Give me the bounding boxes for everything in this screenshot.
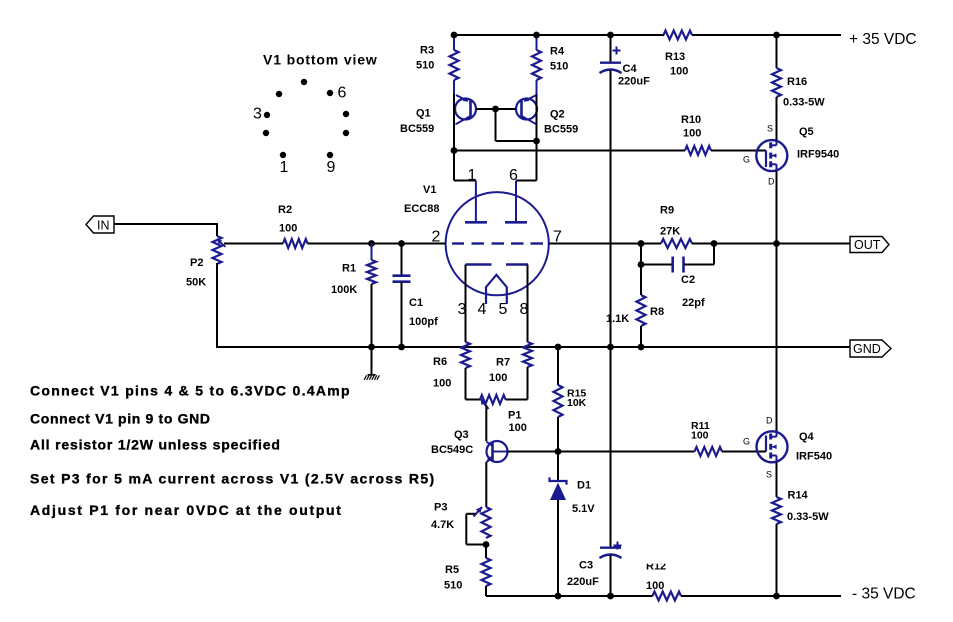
- port IN: [86, 216, 114, 233]
- resistor R11: [691, 420, 722, 456]
- potentiometer P1: [466, 395, 528, 434]
- tube V1 ECC88 envelope: [404, 184, 549, 295]
- resistor R13: [664, 31, 693, 78]
- svg-text:100pf: 100pf: [409, 316, 438, 328]
- svg-text:Q5: Q5: [799, 126, 814, 138]
- svg-text:9: 9: [327, 159, 336, 176]
- svg-text:V1 bottom view: V1 bottom view: [263, 52, 378, 68]
- svg-text:R10: R10: [681, 114, 701, 126]
- wire R2 to V1 pin2: [308, 243, 447, 245]
- wire P1 wiper to Q3: [485, 405, 487, 441]
- MOSFET Q4: [743, 416, 832, 480]
- svg-text:100K: 100K: [331, 284, 357, 296]
- wire V1 pin6 jog: [516, 181, 537, 223]
- svg-text:- 35 VDC: - 35 VDC: [852, 586, 916, 603]
- V1 heater: [486, 275, 507, 304]
- wire Q1 side: [453, 94, 455, 151]
- capacitor C4: [600, 35, 651, 347]
- capacitor C1: [393, 244, 439, 348]
- label V1 pin 2: [432, 228, 441, 245]
- node top rail junctions: [451, 32, 780, 39]
- svg-text:R7: R7: [496, 357, 510, 369]
- svg-text:6: 6: [509, 167, 518, 184]
- resistor R15: [554, 347, 587, 452]
- svg-text:100: 100: [683, 128, 701, 140]
- svg-text:P3: P3: [434, 502, 447, 514]
- wire out row to port: [714, 243, 850, 245]
- node gnd row junctions: [555, 344, 645, 351]
- svg-text:IRF9540: IRF9540: [797, 148, 839, 160]
- wire mirror output row: [454, 150, 685, 152]
- svg-text:Q2: Q2: [550, 109, 565, 121]
- resistor R1: [331, 244, 376, 348]
- node out row right: [711, 240, 718, 247]
- transistor Q2: [496, 95, 579, 136]
- wire Q2 side: [536, 94, 538, 181]
- wire output column: [776, 244, 778, 432]
- svg-text:+ 35 VDC: + 35 VDC: [849, 31, 917, 48]
- svg-text:R1: R1: [342, 263, 356, 275]
- capacitor C2: [641, 244, 714, 310]
- resistor R5: [444, 545, 491, 597]
- svg-text:C2: C2: [681, 274, 695, 286]
- svg-text:0.33-5W: 0.33-5W: [787, 511, 829, 523]
- wire R11 to Q4 gate: [722, 451, 766, 453]
- label V1 pin 5: [499, 301, 508, 318]
- svg-text:P2: P2: [190, 257, 203, 269]
- svg-text:6: 6: [338, 85, 347, 102]
- svg-text:BC549C: BC549C: [431, 444, 473, 456]
- svg-text:220uF: 220uF: [567, 576, 599, 588]
- svg-text:100: 100: [646, 580, 664, 592]
- svg-text:R16: R16: [787, 76, 807, 88]
- wire Q5 drain to out: [776, 171, 778, 244]
- svg-text:220uF: 220uF: [618, 76, 650, 88]
- node bottom rail junctions: [555, 593, 780, 600]
- wire V1 pin1 jog: [454, 151, 476, 223]
- wire Q3 emitter to P3: [485, 462, 487, 507]
- svg-text:BC559: BC559: [400, 123, 434, 135]
- svg-text:1: 1: [468, 167, 477, 184]
- svg-text:100: 100: [670, 66, 688, 78]
- svg-text:Connect V1 pins 4 & 5 to 6.3V: Connect V1 pins 4 & 5 to 6.3VDC 0.4Amp: [30, 383, 351, 399]
- MOSFET Q5: [743, 124, 839, 187]
- svg-text:ECC88: ECC88: [404, 203, 439, 215]
- svg-text:C3: C3: [579, 560, 593, 572]
- svg-text:1.1K: 1.1K: [606, 313, 629, 325]
- svg-text:D: D: [768, 177, 775, 187]
- ground: [364, 347, 379, 380]
- svg-text:D1: D1: [577, 480, 591, 492]
- label V1 pin 8: [520, 301, 529, 318]
- resistor R3: [416, 35, 459, 95]
- label V1 pin 1: [468, 167, 477, 184]
- svg-text:G: G: [743, 437, 750, 447]
- resistor R7: [489, 265, 532, 400]
- svg-text:D: D: [766, 416, 773, 426]
- svg-text:Q1: Q1: [416, 108, 431, 120]
- svg-text:4.7K: 4.7K: [431, 519, 454, 531]
- V1 socket bottom view diagram: [253, 52, 378, 176]
- svg-text:G: G: [743, 155, 750, 165]
- svg-text:510: 510: [550, 61, 568, 73]
- resistor R2: [278, 204, 308, 248]
- svg-text:100: 100: [279, 223, 297, 235]
- V1 cathode plates: [466, 263, 529, 265]
- wire base tie drop: [496, 109, 537, 141]
- V1 grid (dashed): [452, 242, 543, 244]
- svg-text:R5: R5: [445, 564, 459, 576]
- svg-text:27K: 27K: [660, 226, 680, 238]
- wire P2 wiper row: [224, 243, 283, 245]
- node out row left: [638, 240, 645, 247]
- svg-text:C4: C4: [623, 63, 638, 75]
- resistor R10: [681, 114, 711, 155]
- svg-text:R13: R13: [665, 51, 685, 63]
- svg-text:10K: 10K: [567, 397, 587, 409]
- svg-text:S: S: [766, 470, 772, 480]
- wire Q3 base row: [508, 451, 695, 453]
- potentiometer P3: [431, 502, 491, 545]
- node P3 bottom tie: [483, 541, 490, 548]
- svg-text:5.1V: 5.1V: [572, 503, 595, 515]
- svg-text:100: 100: [691, 429, 709, 441]
- wire R10 to Q5 gate: [711, 150, 766, 152]
- resistor R12: [646, 560, 681, 600]
- svg-text:100: 100: [489, 372, 507, 384]
- svg-text:Adjust P1 for near 0VDC at the: Adjust P1 for near 0VDC at the output: [30, 502, 343, 518]
- potentiometer P2: [186, 236, 226, 289]
- label V1 pin 6: [509, 167, 518, 184]
- node Q1-Q2 base tie: [492, 106, 499, 113]
- svg-text:GND: GND: [853, 342, 881, 356]
- svg-text:IRF540: IRF540: [796, 451, 832, 463]
- wire V1 pin7 lead: [549, 243, 641, 245]
- svg-text:22pf: 22pf: [682, 297, 705, 309]
- transistor Q3: [431, 429, 508, 462]
- port GND: [850, 340, 891, 357]
- svg-text:V1: V1: [423, 184, 436, 196]
- node C2 left corner: [638, 261, 645, 268]
- label -35 VDC: [852, 586, 916, 603]
- svg-text:R8: R8: [650, 306, 664, 318]
- svg-text:50K: 50K: [186, 277, 206, 289]
- label V1 pin 3: [458, 301, 467, 318]
- svg-text:510: 510: [444, 580, 462, 592]
- svg-text:510: 510: [416, 60, 434, 72]
- node junctions input row: [368, 240, 405, 247]
- resistor R16: [772, 35, 825, 140]
- node mirror output: [451, 147, 458, 154]
- svg-text:4: 4: [478, 301, 487, 318]
- capacitor C3: [567, 347, 622, 596]
- svg-text:Set P3 for 5 mA current across: Set P3 for 5 mA current across V1 (2.5V …: [30, 471, 435, 487]
- svg-text:1: 1: [280, 159, 289, 176]
- svg-text:IN: IN: [97, 219, 110, 233]
- svg-text:C1: C1: [409, 297, 423, 309]
- label V1 pin 4: [478, 301, 487, 318]
- svg-text:OUT: OUT: [854, 238, 881, 252]
- svg-text:0.33-5W: 0.33-5W: [783, 97, 825, 109]
- svg-text:R6: R6: [433, 356, 447, 368]
- node Q2 collector tie: [533, 138, 540, 145]
- svg-text:R3: R3: [420, 45, 434, 57]
- svg-text:R2: R2: [278, 204, 292, 216]
- wire P2 bottom to gnd row: [216, 263, 850, 347]
- svg-text:All resistor 1/2W unless speci: All resistor 1/2W unless specified: [30, 437, 281, 453]
- svg-text:BC559: BC559: [544, 124, 578, 136]
- svg-text:Connect V1 pin 9 to GND: Connect V1 pin 9 to GND: [30, 410, 211, 426]
- node output column: [773, 240, 780, 247]
- resistor R4: [532, 35, 568, 95]
- wire +35V top rail: [454, 34, 841, 36]
- svg-text:3: 3: [253, 106, 262, 123]
- resistor R14: [772, 463, 829, 597]
- label V1 pin 7: [553, 228, 562, 245]
- svg-text:P1: P1: [508, 410, 521, 422]
- wire -35V bottom rail: [486, 595, 841, 597]
- port OUT: [850, 237, 889, 253]
- resistor R6: [433, 265, 470, 400]
- svg-text:R9: R9: [660, 205, 674, 217]
- svg-text:Q3: Q3: [454, 429, 469, 441]
- resistor R8: [606, 265, 664, 348]
- wire V1 pin2 lead: [402, 243, 446, 245]
- svg-text:5: 5: [499, 301, 508, 318]
- resistor R9: [641, 205, 714, 249]
- svg-text:R4: R4: [550, 46, 565, 58]
- node Q3 base / D1 / R15: [555, 448, 562, 455]
- transistor Q1: [400, 95, 496, 135]
- wire IN to P2: [114, 223, 217, 236]
- node junctions gnd row left: [368, 344, 405, 351]
- svg-text:R14: R14: [788, 490, 809, 502]
- svg-text:100: 100: [509, 422, 527, 434]
- label +35 VDC: [849, 31, 917, 48]
- zener diode D1: [550, 452, 596, 597]
- svg-text:S: S: [767, 124, 773, 134]
- svg-text:100: 100: [433, 378, 451, 390]
- notes text block: [30, 383, 435, 518]
- V1 anode plates: [465, 221, 527, 224]
- svg-text:Q4: Q4: [799, 431, 815, 443]
